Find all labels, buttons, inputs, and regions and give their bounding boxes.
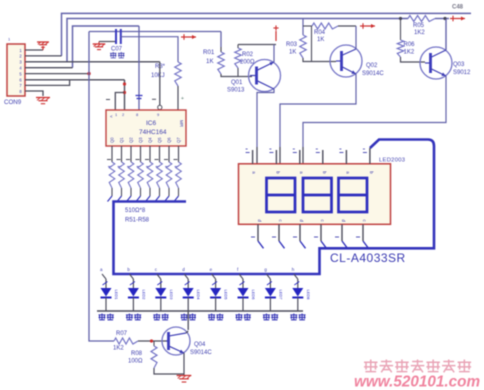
LED D5 tap from bus: [212, 274, 216, 279]
wire R08 to emitter node: [154, 368, 184, 374]
svg-text:LED1: LED1: [114, 290, 119, 301]
wire LED D2 cathode: [132, 298, 134, 312]
label indicator 6: [236, 314, 243, 320]
svg-text:10KJ: 10KJ: [151, 73, 165, 79]
display CL-A4033SR: [239, 164, 391, 225]
svg-text:1K: 1K: [206, 58, 214, 65]
LED D8: [292, 288, 303, 297]
resistor R08 100: [153, 341, 155, 346]
wire CON pin6 down to IC pin 2: [124, 80, 126, 110]
svg-text:C07: C07: [111, 47, 123, 53]
7-segment digit 3: [339, 178, 368, 212]
svg-text:LED2: LED2: [141, 290, 146, 301]
power flag +V right end: [450, 18, 465, 20]
svg-text:LED8: LED8: [306, 290, 311, 301]
svg-text:510Ω*8: 510Ω*8: [125, 208, 146, 214]
svg-text:Q2: Q2: [129, 137, 134, 143]
svg-text:Q7: Q7: [176, 137, 181, 143]
svg-text:R07: R07: [116, 331, 128, 337]
label indicator 8: [290, 314, 297, 320]
resistor R01 1K: [218, 52, 224, 74]
svg-text:LED7: LED7: [278, 290, 283, 301]
wire R04 left to base net: [303, 25, 312, 27]
label indicator 7: [263, 314, 270, 320]
svg-text:S9014C: S9014C: [190, 350, 212, 356]
wire LED D3 cathode: [160, 298, 162, 312]
resistor R03 1K: [300, 35, 306, 58]
wire rail2 to R06: [400, 19, 402, 41]
wire LED D6 cathode: [242, 298, 244, 312]
svg-text:Q6: Q6: [167, 137, 172, 143]
resistor R02 200: [235, 48, 241, 68]
wire R06 to Q03 base: [401, 57, 426, 62]
resistor R54: [140, 146, 142, 162]
wire R02 bottom to base: [237, 68, 239, 77]
wire R04 right to collector node: [338, 25, 356, 27]
transistor Q04 S9014C: [162, 327, 190, 355]
svg-text:S9013: S9013: [227, 88, 245, 94]
connector CON9: [7, 44, 25, 96]
svg-text:Q02: Q02: [366, 63, 378, 69]
transistor Q02 S9014C: [330, 45, 362, 77]
resistor R57: [168, 146, 170, 162]
display bottom pins to bus: [257, 224, 259, 241]
wire R3 to IC pin 9: [177, 86, 179, 110]
transistor Q03 S9012: [420, 47, 452, 79]
svg-text:S9014C: S9014C: [362, 71, 384, 77]
wire LED D8 cathode: [297, 298, 299, 312]
svg-text:1K2: 1K2: [414, 30, 425, 36]
LED D4 tap from bus: [184, 274, 188, 279]
wire CON pin3 down to IC pin 9 (MR): [159, 62, 161, 106]
power flag +V at R3: [181, 36, 196, 38]
LED D7 tap from bus: [266, 274, 270, 279]
wire CON pin5: [25, 73, 89, 75]
7-segment digit 2: [303, 178, 332, 212]
svg-text:Q3: Q3: [138, 137, 143, 143]
svg-text:Q03: Q03: [453, 62, 465, 68]
wire LED D4 cathode: [187, 298, 189, 312]
svg-text:Q01: Q01: [231, 80, 243, 86]
wire Q03 collector to display pin c: [303, 76, 446, 147]
svg-text:R51-R58: R51-R58: [125, 218, 150, 224]
wire R03 to Q02 base: [303, 58, 336, 62]
label indicator 1: [99, 314, 106, 320]
LED D2: [128, 288, 139, 297]
svg-text:R05: R05: [413, 23, 425, 29]
wire ground to C07: [99, 41, 115, 43]
resistor R05 1K2 (inline rail 2): [408, 16, 435, 22]
svg-text:R08: R08: [131, 351, 143, 357]
svg-text:1K2: 1K2: [404, 50, 415, 56]
svg-text:R01: R01: [203, 49, 215, 56]
wire R01 to Q01 base: [221, 74, 252, 77]
resistor R3 10KJ: [175, 62, 181, 86]
resistor R53: [130, 146, 132, 162]
svg-text:Q5: Q5: [157, 137, 162, 143]
svg-text:+: +: [181, 96, 184, 102]
svg-text:100Ω: 100Ω: [128, 359, 143, 365]
wire Q04 emitter to ground: [183, 353, 185, 375]
wire Q02 emitter to display pin b: [280, 74, 356, 147]
wire LED D7 cathode: [269, 298, 271, 312]
wire A/B tie bracket: [115, 93, 124, 111]
wire CON pin6 to IC B input: [25, 79, 125, 81]
svg-text:Q1: Q1: [119, 137, 124, 143]
LED D6: [238, 288, 249, 297]
LED D3 tap from bus: [157, 274, 161, 279]
wire rail2 to R03: [302, 19, 304, 36]
transistor Q01 S9013: [249, 60, 281, 92]
svg-text:CL-A4033SR: CL-A4033SR: [330, 251, 406, 265]
svg-text:R02: R02: [242, 52, 254, 58]
LED D2 tap from bus: [129, 274, 133, 279]
label indicator 2: [126, 314, 133, 320]
ground at CON pin1 (red): [42, 46, 44, 50]
LED D8 tap from bus: [294, 274, 298, 279]
wire CON pin3 to IC MR: [25, 61, 160, 63]
resistor R56: [159, 146, 161, 162]
svg-text:Q4: Q4: [148, 137, 153, 143]
svg-text:LED6: LED6: [251, 290, 256, 301]
power flag +V at Q02: [360, 25, 375, 27]
svg-text:1K: 1K: [289, 50, 296, 56]
7-segment digit 1: [267, 178, 296, 212]
label indicator 4: [181, 314, 188, 320]
LED D4: [183, 288, 194, 297]
resistor R55: [149, 146, 151, 162]
wire left vertical (rail4 down to R07): [89, 32, 114, 342]
svg-text:1K: 1K: [317, 37, 324, 43]
svg-text:1K2: 1K2: [113, 346, 124, 352]
svg-text:LED4: LED4: [196, 290, 201, 301]
svg-text:LED3: LED3: [169, 290, 174, 301]
wire R02 top to +V node: [238, 44, 276, 46]
svg-text:R03: R03: [286, 42, 298, 48]
LED D3: [155, 288, 166, 297]
resistor R58: [178, 146, 180, 162]
wire Q03 emitter to rail2: [445, 19, 447, 50]
LED D1 tap from bus: [102, 274, 106, 279]
LED D5: [210, 288, 221, 297]
wire LED D5 cathode: [215, 298, 217, 312]
svg-text:MR: MR: [179, 120, 184, 128]
label indicator 3: [153, 314, 160, 320]
svg-text:Q0: Q0: [110, 137, 115, 143]
wire CON pin2: [25, 55, 62, 57]
wire CON pin1: [25, 49, 43, 51]
svg-text:CON9: CON9: [4, 99, 22, 106]
svg-text:IC6: IC6: [146, 120, 157, 127]
wire rail 1 (CON pin2 net): [62, 13, 472, 56]
svg-text:R04: R04: [314, 30, 326, 36]
wire CON pin4: [25, 67, 73, 69]
svg-text:LED5: LED5: [224, 290, 229, 301]
bus bundle from resistors to LEDs and display: [114, 146, 435, 274]
wire C07 to R3 (+V net): [121, 37, 178, 62]
wire rail 4 (CON pin5 net, to R01): [89, 31, 221, 33]
IC IC6 74HC164: [106, 110, 186, 146]
wire rail4 corner down to R01: [220, 32, 222, 48]
resistor R04 1K: [312, 23, 338, 29]
wire rail3 to IC CLK pin 8: [138, 26, 140, 110]
svg-text:74HC164: 74HC164: [139, 129, 167, 136]
resistor R51: [111, 146, 113, 162]
resistor R06 1K2: [397, 40, 403, 57]
svg-text:R06: R06: [404, 42, 416, 48]
LED cathode bus: [97, 310, 303, 312]
svg-text:www.520101.com: www.520101.com: [354, 374, 480, 390]
ground at CON pin8: [36, 97, 50, 99]
svg-text:<: <: [110, 114, 113, 119]
svg-text:S9012: S9012: [453, 70, 471, 76]
wire LED D1 cathode: [105, 298, 107, 312]
wire Q01 emitter to +V: [273, 45, 275, 63]
label indicator 5: [208, 314, 215, 320]
display top pins: [252, 150, 254, 164]
resistor R07 1K2: [114, 338, 138, 344]
wire Q02 collector to R04 node: [355, 26, 357, 49]
svg-text:C48: C48: [452, 5, 464, 11]
ground at Q04: [177, 375, 192, 377]
LED D1: [101, 288, 112, 297]
watermark site name: [364, 360, 378, 372]
wire R07 to base node: [138, 340, 169, 342]
svg-text:Q04: Q04: [194, 342, 206, 348]
wire CON pin7 joins pin6 net: [25, 80, 70, 86]
LED D6 tap from bus: [239, 274, 243, 279]
resistor R52: [121, 146, 123, 162]
svg-text:LED2003: LED2003: [379, 158, 405, 164]
wire Q04 collector to LED cathode bus: [187, 311, 189, 330]
junction CON pin5 / left vertical: [87, 72, 90, 75]
wire CON pin8 to ground: [25, 91, 43, 96]
wire rail 2 (CON pin3 net): [67, 19, 408, 62]
LED D7: [265, 288, 276, 297]
capacitor C07: [115, 29, 117, 44]
power flag +V at Q01: [275, 31, 277, 41]
ground for C07: [93, 43, 106, 45]
wire rail 3 (CON pin4 net, to IC CLK): [73, 26, 140, 68]
wire Q01 collector to display pin a: [257, 89, 274, 147]
